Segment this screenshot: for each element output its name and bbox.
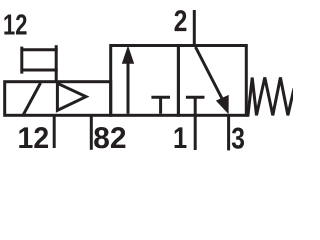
manual override symbol	[20, 47, 57, 74]
label 1 (supply port)	[175, 127, 187, 148]
label 12 (pilot port, bottom)	[19, 127, 48, 148]
flow arrow 1 to 2 (arrowhead)	[122, 46, 134, 64]
port 3 line	[227, 115, 230, 150]
solenoid diagonal	[23, 83, 41, 115]
port 1 line (T stem continues below valve)	[194, 97, 197, 150]
label 82 (pilot exhaust port)	[94, 127, 125, 148]
port 82 line	[90, 115, 93, 150]
blocked port T bar (right square, port 1)	[186, 96, 205, 99]
flow arrow 1 to 2 (up arrow stem)	[127, 61, 130, 114]
port 12 line	[53, 115, 56, 148]
label 12 (pilot port, top)	[4, 14, 26, 34]
flow path 2 to 3 (arrowhead)	[216, 95, 229, 114]
manual override stem wire	[55, 45, 58, 81]
label 3 (exhaust port)	[232, 127, 244, 148]
pilot amplifier triangle	[57, 83, 86, 110]
label 2 (output port)	[175, 10, 187, 31]
blocked port T (left square)	[151, 97, 170, 114]
valve body left square	[111, 46, 179, 116]
valve body right square	[178, 46, 246, 116]
port 2 line	[193, 10, 196, 46]
solenoid pilot box	[5, 82, 111, 116]
return spring	[246, 77, 294, 115]
flow path 2 to 3 (diagonal line)	[196, 47, 223, 100]
